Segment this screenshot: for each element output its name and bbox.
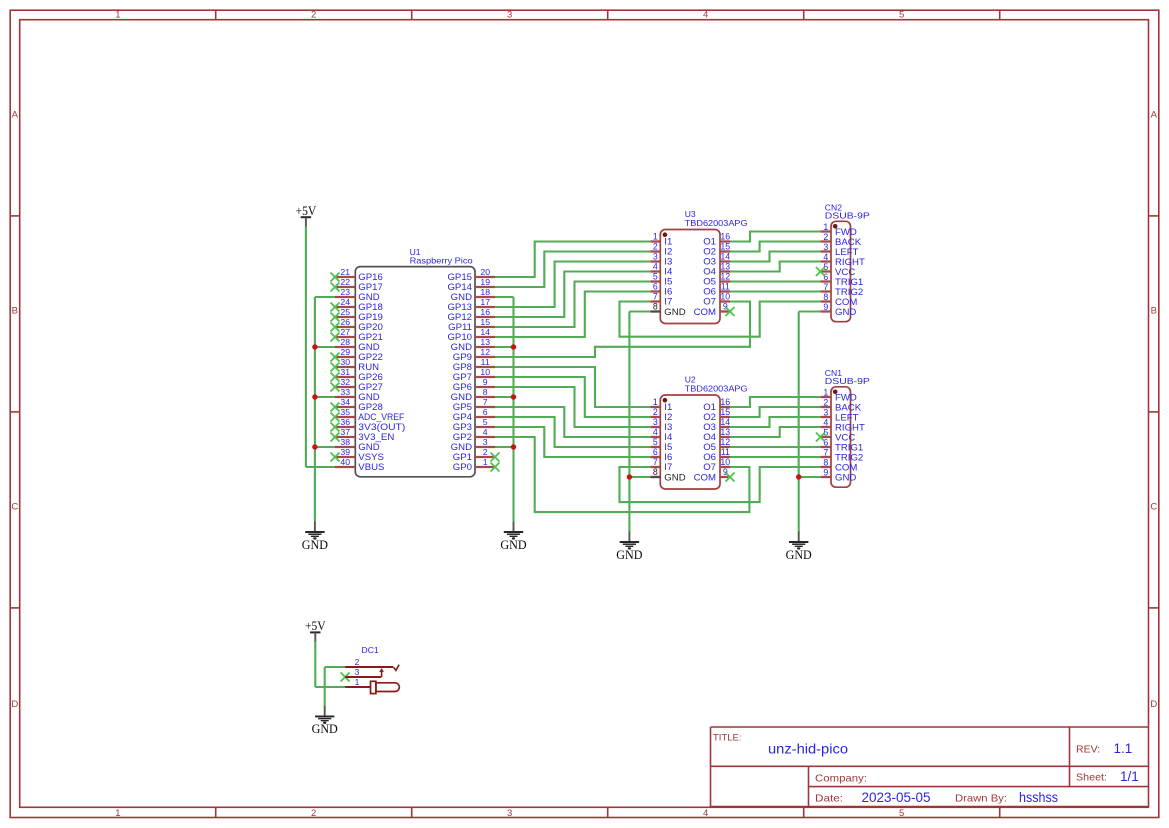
svg-text:36: 36: [340, 417, 350, 427]
svg-text:Raspberry Pico: Raspberry Pico: [410, 256, 473, 266]
svg-text:B: B: [1151, 305, 1157, 316]
svg-text:22: 22: [340, 277, 350, 287]
svg-text:12: 12: [720, 437, 730, 447]
svg-text:25: 25: [340, 307, 350, 317]
svg-text:26: 26: [340, 317, 350, 327]
svg-text:28: 28: [340, 337, 350, 347]
svg-text:GND: GND: [500, 538, 526, 552]
svg-text:14: 14: [720, 252, 730, 262]
svg-text:C: C: [11, 501, 18, 512]
svg-text:15: 15: [720, 242, 730, 252]
svg-text:6: 6: [823, 272, 828, 282]
svg-text:10: 10: [720, 292, 730, 302]
svg-text:hsshss: hsshss: [1019, 790, 1058, 805]
svg-text:29: 29: [340, 347, 350, 357]
svg-text:35: 35: [340, 407, 350, 417]
svg-text:8: 8: [823, 292, 828, 302]
svg-text:GND: GND: [664, 472, 685, 483]
svg-text:8: 8: [823, 457, 828, 467]
svg-text:19: 19: [480, 277, 490, 287]
svg-text:COM: COM: [694, 472, 716, 483]
svg-text:5: 5: [899, 808, 904, 819]
svg-text:Sheet:: Sheet:: [1076, 772, 1107, 784]
svg-text:21: 21: [340, 267, 350, 277]
svg-text:13: 13: [720, 427, 730, 437]
svg-text:33: 33: [340, 387, 350, 397]
svg-text:3: 3: [823, 407, 828, 417]
svg-text:40: 40: [340, 457, 350, 467]
svg-text:C: C: [1150, 501, 1157, 512]
svg-text:4: 4: [653, 262, 658, 272]
svg-text:8: 8: [483, 387, 488, 397]
svg-text:8: 8: [653, 302, 658, 312]
svg-text:GP0: GP0: [453, 462, 472, 473]
svg-text:GND: GND: [312, 722, 338, 736]
svg-text:3: 3: [653, 417, 658, 427]
svg-text:D: D: [11, 699, 18, 710]
svg-text:B: B: [12, 305, 18, 316]
svg-text:1: 1: [115, 808, 120, 819]
svg-text:GND: GND: [302, 538, 328, 552]
svg-text:2: 2: [823, 232, 828, 242]
svg-text:23: 23: [340, 287, 350, 297]
svg-text:2: 2: [311, 10, 316, 21]
svg-text:2: 2: [355, 657, 360, 667]
svg-text:14: 14: [480, 327, 490, 337]
svg-text:7: 7: [653, 292, 658, 302]
svg-text:5: 5: [899, 10, 904, 21]
svg-text:D: D: [1150, 699, 1157, 710]
svg-text:4: 4: [703, 808, 708, 819]
svg-text:COM: COM: [694, 307, 716, 318]
svg-text:38: 38: [340, 437, 350, 447]
svg-text:7: 7: [653, 457, 658, 467]
svg-text:DSUB-9P: DSUB-9P: [825, 210, 870, 220]
svg-text:16: 16: [720, 397, 730, 407]
svg-text:11: 11: [481, 357, 490, 367]
svg-text:+5V: +5V: [296, 204, 317, 218]
svg-text:DSUB-9P: DSUB-9P: [825, 376, 870, 386]
svg-text:27: 27: [340, 327, 350, 337]
svg-text:1: 1: [115, 10, 120, 21]
svg-text:10: 10: [480, 367, 490, 377]
svg-text:2: 2: [823, 397, 828, 407]
svg-text:18: 18: [480, 287, 490, 297]
svg-text:1: 1: [823, 387, 828, 397]
svg-text:7: 7: [823, 447, 828, 457]
svg-text:3: 3: [483, 437, 488, 447]
svg-text:9: 9: [723, 467, 728, 477]
svg-text:37: 37: [340, 427, 350, 437]
svg-text:7: 7: [823, 282, 828, 292]
svg-text:5: 5: [483, 417, 488, 427]
svg-text:20: 20: [480, 267, 490, 277]
svg-text:1: 1: [355, 677, 360, 687]
svg-text:11: 11: [721, 282, 730, 292]
svg-text:2: 2: [653, 407, 658, 417]
svg-text:1.1: 1.1: [1114, 741, 1133, 756]
svg-text:9: 9: [723, 302, 728, 312]
svg-text:GND: GND: [664, 307, 685, 318]
svg-text:GND: GND: [616, 548, 642, 562]
svg-text:4: 4: [483, 427, 488, 437]
svg-text:GND: GND: [835, 307, 856, 318]
svg-text:8: 8: [653, 467, 658, 477]
svg-text:13: 13: [720, 262, 730, 272]
svg-text:24: 24: [340, 297, 350, 307]
svg-text:3: 3: [653, 252, 658, 262]
svg-text:17: 17: [480, 297, 490, 307]
svg-text:Drawn By:: Drawn By:: [955, 793, 1007, 805]
svg-text:1: 1: [483, 457, 488, 467]
svg-text:GND: GND: [786, 548, 812, 562]
svg-text:4: 4: [703, 10, 708, 21]
svg-text:34: 34: [340, 397, 350, 407]
svg-text:3: 3: [507, 808, 512, 819]
svg-text:4: 4: [823, 417, 828, 427]
svg-text:VBUS: VBUS: [358, 462, 384, 473]
svg-text:A: A: [1151, 109, 1158, 120]
svg-text:2023-05-05: 2023-05-05: [862, 790, 931, 805]
svg-text:4: 4: [653, 427, 658, 437]
svg-text:30: 30: [340, 357, 350, 367]
svg-text:5: 5: [653, 437, 658, 447]
svg-text:1/1: 1/1: [1120, 769, 1139, 784]
svg-text:10: 10: [720, 457, 730, 467]
svg-text:3: 3: [823, 242, 828, 252]
svg-text:31: 31: [340, 367, 350, 377]
svg-text:2: 2: [311, 808, 316, 819]
svg-text:9: 9: [823, 302, 828, 312]
svg-text:9: 9: [483, 377, 488, 387]
svg-text:7: 7: [483, 397, 488, 407]
svg-text:39: 39: [340, 447, 350, 457]
svg-text:REV:: REV:: [1076, 744, 1100, 756]
svg-text:16: 16: [720, 232, 730, 242]
svg-text:1: 1: [653, 397, 658, 407]
svg-text:15: 15: [480, 317, 490, 327]
svg-text:14: 14: [720, 417, 730, 427]
svg-text:9: 9: [823, 467, 828, 477]
svg-text:3: 3: [507, 10, 512, 21]
svg-text:6: 6: [823, 437, 828, 447]
svg-text:DC1: DC1: [362, 645, 379, 655]
svg-text:15: 15: [720, 407, 730, 417]
svg-text:32: 32: [340, 377, 350, 387]
svg-text:16: 16: [480, 307, 490, 317]
svg-text:4: 4: [823, 252, 828, 262]
svg-text:TBD62003APG: TBD62003APG: [685, 218, 748, 228]
svg-text:12: 12: [480, 347, 490, 357]
svg-text:unz-hid-pico: unz-hid-pico: [768, 741, 848, 757]
svg-text:TITLE:: TITLE:: [713, 733, 742, 744]
svg-text:6: 6: [653, 447, 658, 457]
svg-text:1: 1: [823, 222, 828, 232]
svg-text:GND: GND: [835, 472, 856, 483]
svg-text:5: 5: [653, 272, 658, 282]
svg-text:Company:: Company:: [815, 773, 867, 785]
svg-text:11: 11: [721, 447, 730, 457]
svg-text:TBD62003APG: TBD62003APG: [685, 384, 748, 394]
svg-text:+5V: +5V: [305, 619, 326, 633]
svg-text:6: 6: [483, 407, 488, 417]
svg-text:3: 3: [355, 667, 360, 677]
svg-text:6: 6: [653, 282, 658, 292]
svg-text:A: A: [12, 109, 19, 120]
svg-text:Date:: Date:: [815, 793, 843, 805]
svg-text:12: 12: [720, 272, 730, 282]
svg-text:1: 1: [653, 232, 658, 242]
svg-text:13: 13: [480, 337, 490, 347]
svg-text:2: 2: [483, 447, 488, 457]
svg-text:2: 2: [653, 242, 658, 252]
